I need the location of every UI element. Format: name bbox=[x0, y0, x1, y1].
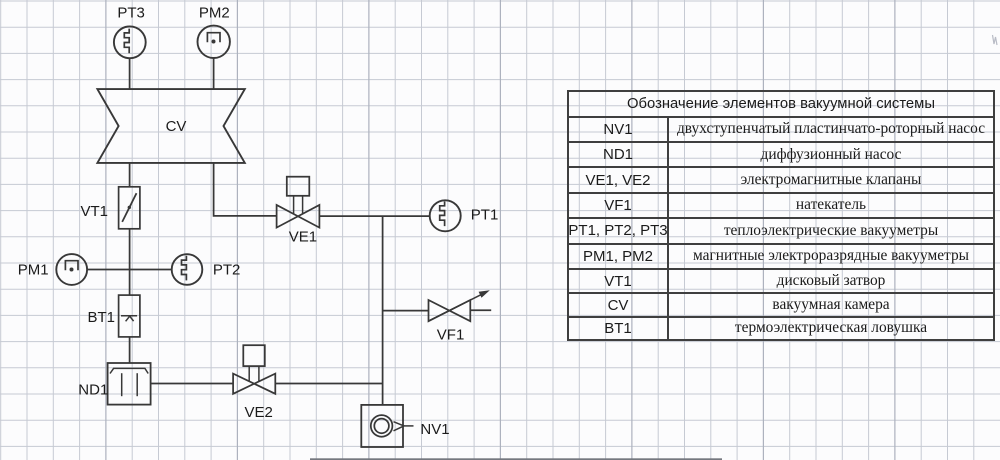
gauge PT1 bbox=[430, 200, 499, 231]
gauge PM2 bbox=[198, 4, 230, 58]
wire CV to VE1 bbox=[214, 163, 277, 216]
vacuum chamber CV bbox=[97, 89, 244, 163]
gauge PT3 bbox=[114, 4, 146, 58]
svg-text:ND1: ND1 bbox=[78, 382, 108, 399]
leak valve VF1 bbox=[429, 290, 492, 343]
solenoid valve VE2 bbox=[233, 345, 275, 421]
svg-text:VF1: VF1 bbox=[437, 327, 465, 344]
wire VE2 to NV1 drop bbox=[275, 383, 382, 385]
diffusion pump ND1 bbox=[78, 363, 150, 405]
rotary vane pump NV1 bbox=[361, 405, 449, 447]
svg-text:VE1: VE1 bbox=[289, 228, 317, 245]
gauge PM1 bbox=[18, 254, 87, 285]
wire CV to VT1 bbox=[129, 163, 131, 187]
wire PM1 to PT2 bbox=[87, 269, 172, 271]
disk gate valve VT1 bbox=[81, 187, 140, 229]
wire branch to VF1 bbox=[383, 310, 429, 312]
watermark speck bbox=[993, 35, 998, 45]
svg-text:PM1: PM1 bbox=[18, 261, 49, 278]
svg-text:PT1: PT1 bbox=[471, 207, 499, 224]
svg-text:PT3: PT3 bbox=[117, 4, 145, 21]
solenoid valve VE1 bbox=[277, 177, 320, 246]
svg-text:PT2: PT2 bbox=[213, 261, 241, 278]
wire main drop to NV1 bbox=[382, 216, 384, 405]
gauge PT2 bbox=[172, 254, 241, 285]
wire BT1 to ND1 bbox=[129, 337, 131, 363]
legend table bbox=[567, 90, 995, 341]
thermoelectric trap BT1 bbox=[88, 295, 140, 337]
wire VE1 to PT1 bbox=[319, 215, 429, 217]
svg-text:VT1: VT1 bbox=[81, 203, 109, 220]
wire PM2 to CV bbox=[213, 58, 215, 89]
svg-text:PM2: PM2 bbox=[199, 4, 230, 21]
svg-text:BT1: BT1 bbox=[88, 309, 116, 326]
wire ND1 to VE2 bbox=[151, 383, 234, 385]
wire PT3 to CV bbox=[129, 58, 131, 89]
svg-text:NV1: NV1 bbox=[420, 421, 449, 438]
svg-text:VE2: VE2 bbox=[245, 404, 273, 421]
wire VT1 to BT1 bbox=[129, 229, 131, 295]
svg-text:CV: CV bbox=[166, 118, 187, 135]
